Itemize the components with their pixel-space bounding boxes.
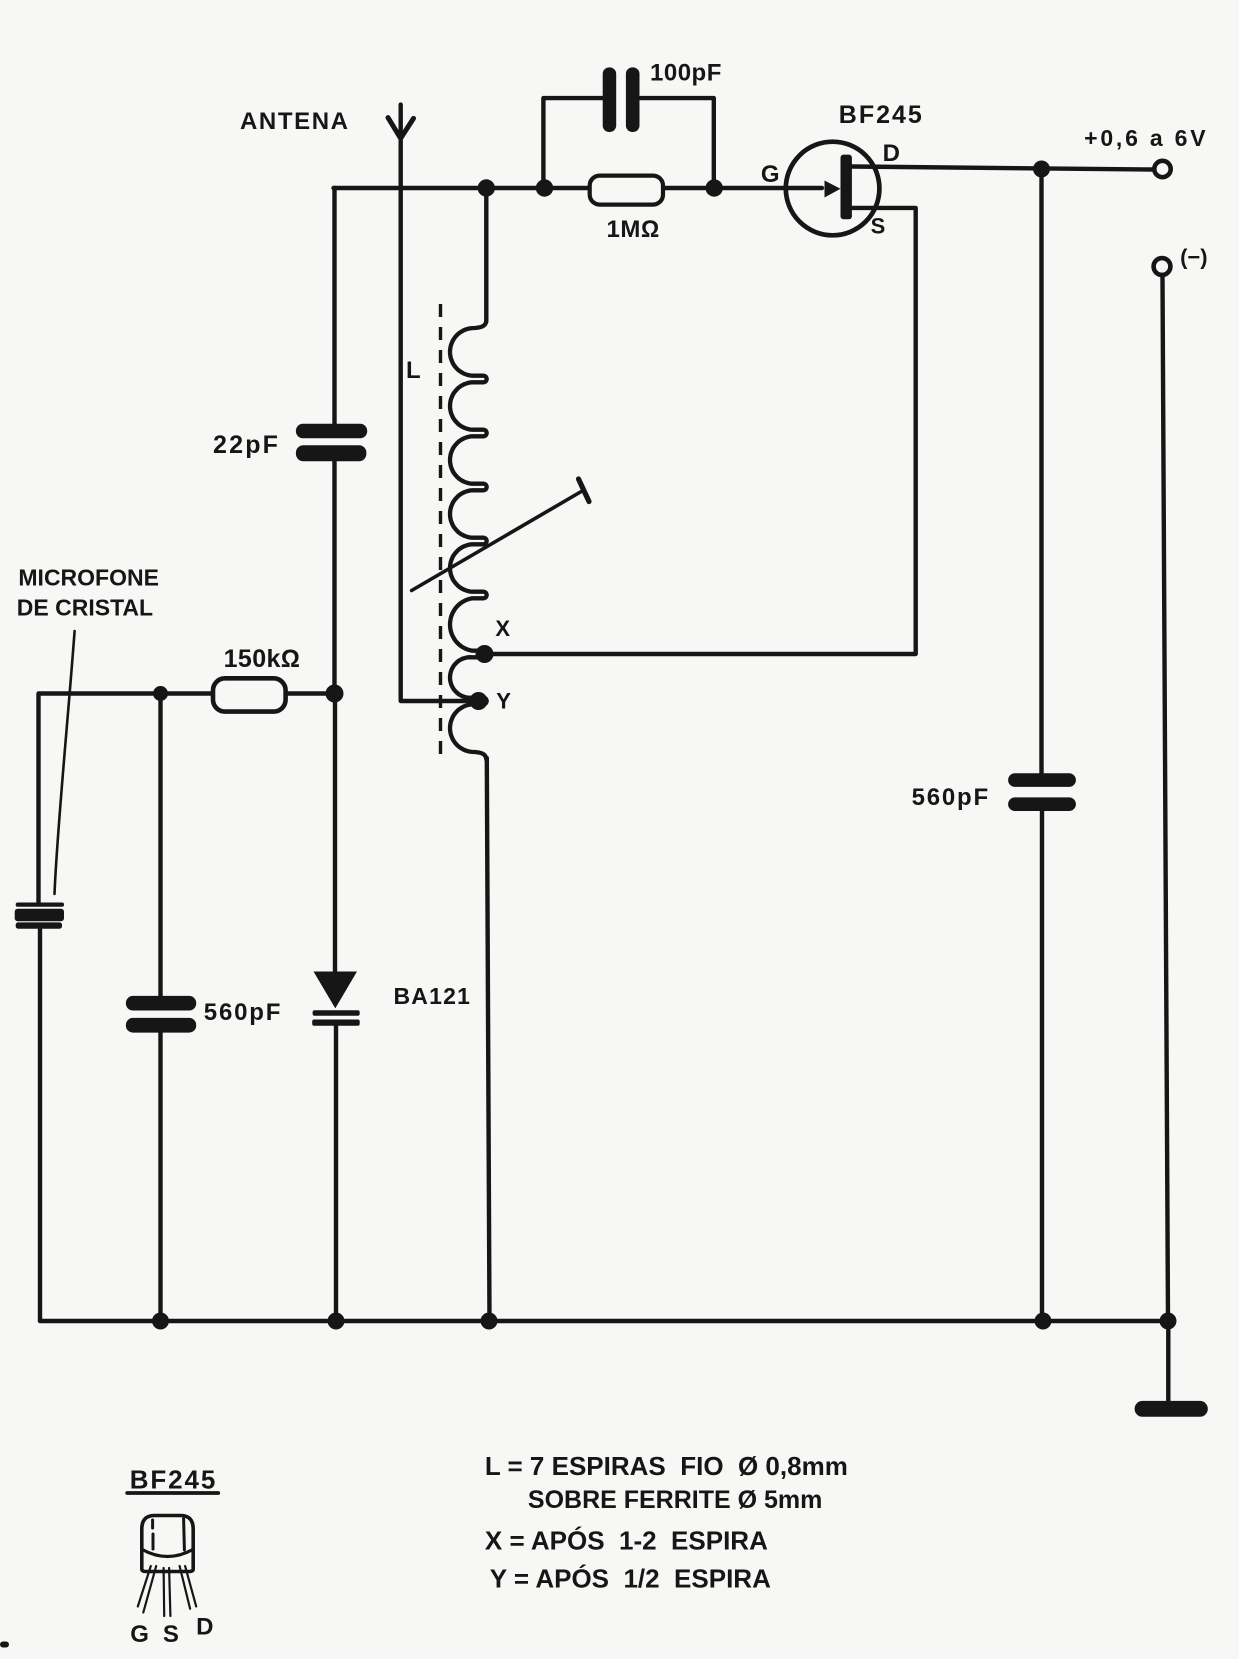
svg-text:L = 7 ESPIRAS FIO Ø 0,8mm: L = 7 ESPIRAS FIO Ø 0,8mm: [485, 1451, 848, 1481]
svg-text:Y = APÓS 1/2 ESPIRA: Y = APÓS 1/2 ESPIRA: [490, 1564, 771, 1594]
svg-text:X = APÓS 1-2 ESPIRA: X = APÓS 1-2 ESPIRA: [485, 1526, 768, 1556]
svg-text:Y: Y: [496, 689, 511, 714]
svg-text:560pF: 560pF: [912, 784, 990, 811]
svg-text:S: S: [871, 214, 886, 239]
svg-text:560pF: 560pF: [204, 999, 282, 1026]
svg-text:MICROFONE: MICROFONE: [18, 565, 159, 591]
svg-text:G: G: [130, 1621, 149, 1648]
svg-text:+0,6 a 6V: +0,6 a 6V: [1084, 125, 1208, 151]
svg-text:D: D: [196, 1614, 213, 1641]
svg-text:G: G: [761, 161, 780, 188]
svg-text:S: S: [163, 1621, 179, 1648]
svg-text:(−): (−): [1180, 245, 1208, 270]
svg-text:100pF: 100pF: [650, 59, 722, 86]
svg-text:DE CRISTAL: DE CRISTAL: [17, 595, 153, 621]
svg-text:1MΩ: 1MΩ: [607, 216, 660, 243]
svg-text:D: D: [883, 140, 900, 167]
svg-text:BF245: BF245: [839, 101, 924, 129]
svg-text:L: L: [406, 357, 421, 384]
svg-text:BF245: BF245: [130, 1464, 218, 1494]
svg-text:X: X: [495, 616, 510, 641]
svg-text:ANTENA: ANTENA: [240, 108, 350, 135]
svg-text:SOBRE FERRITE Ø 5mm: SOBRE FERRITE Ø 5mm: [528, 1486, 823, 1514]
svg-text:150kΩ: 150kΩ: [224, 645, 301, 673]
svg-text:22pF: 22pF: [213, 431, 280, 459]
svg-text:BA121: BA121: [394, 983, 472, 1009]
